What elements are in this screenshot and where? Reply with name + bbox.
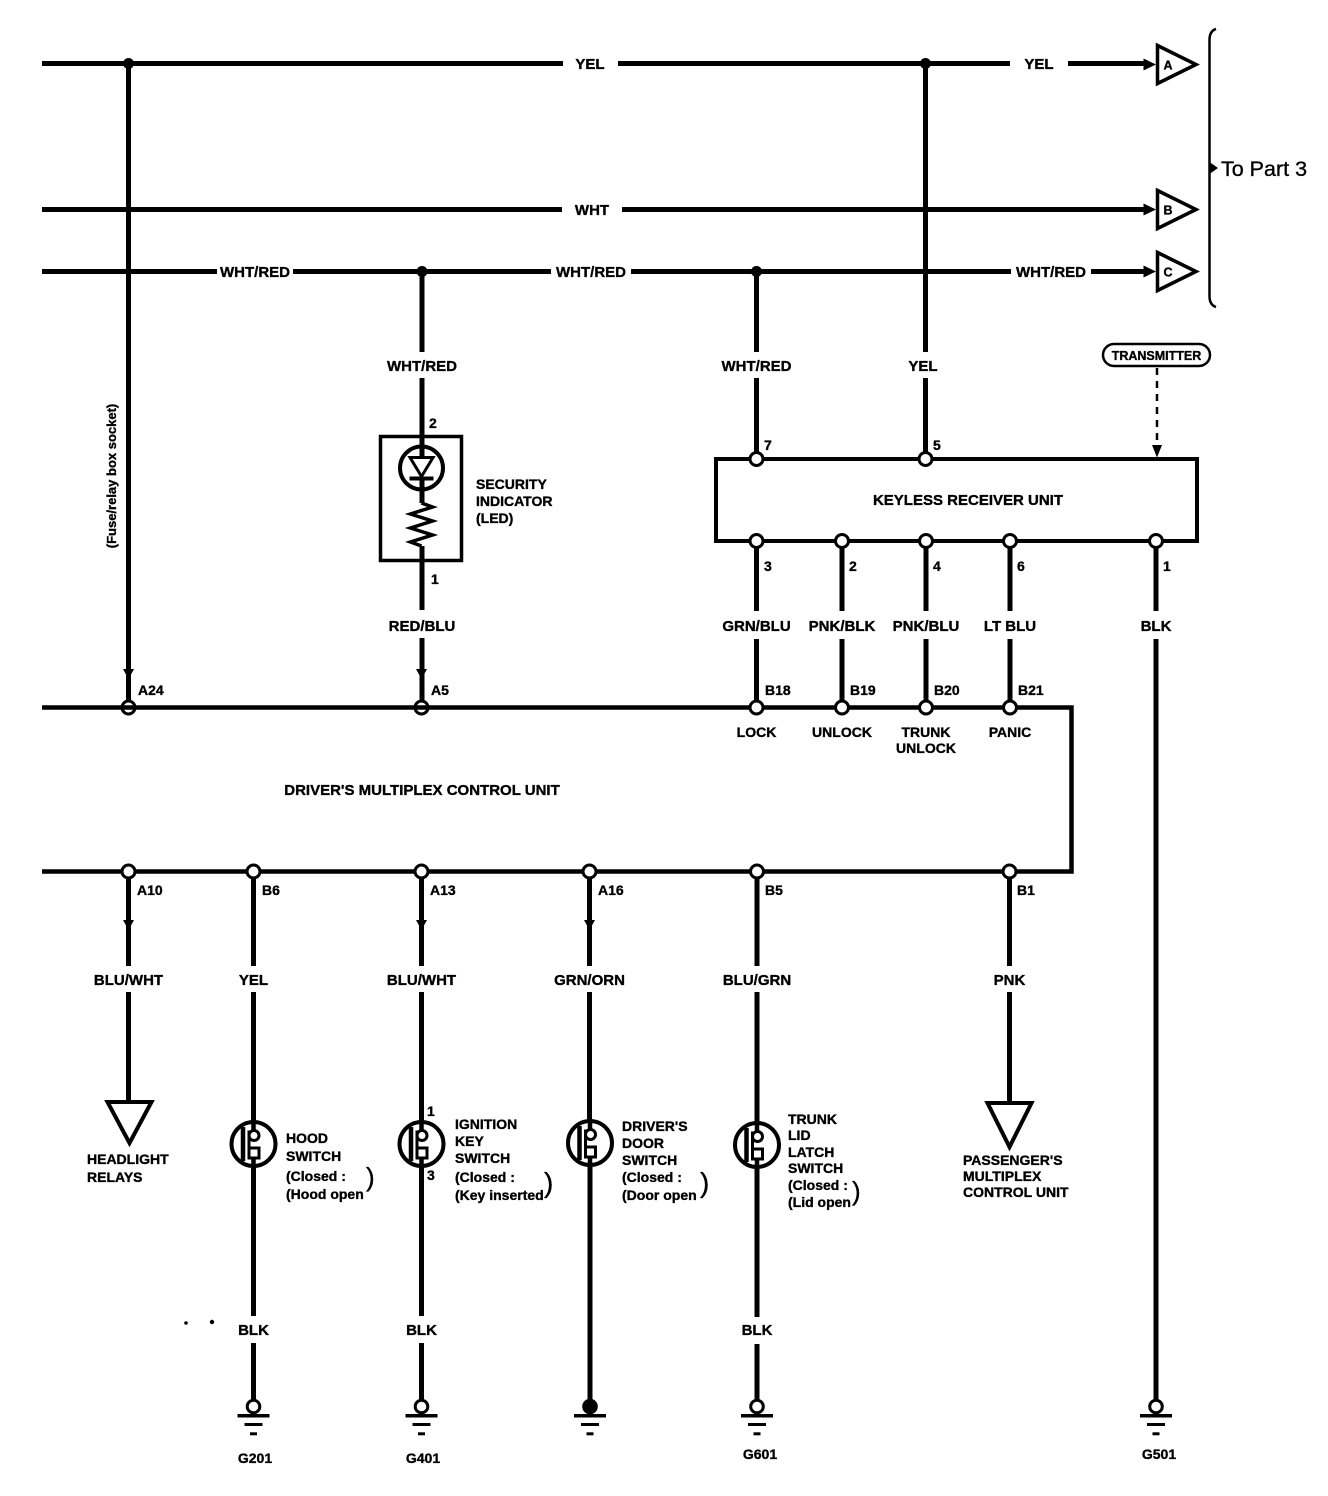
svg-text:B: B — [1163, 204, 1172, 218]
svg-text:BLK: BLK — [742, 1322, 773, 1339]
svg-text:PANIC: PANIC — [989, 724, 1032, 740]
svg-text:A10: A10 — [137, 882, 163, 898]
svg-text:3: 3 — [427, 1167, 435, 1183]
pin A24 — [122, 682, 164, 714]
label SECURITY INDICATOR (LED) — [476, 476, 552, 526]
svg-text:YEL: YEL — [908, 358, 937, 375]
label TRUNK UNLOCK — [896, 724, 956, 756]
svg-text:TRUNK: TRUNK — [902, 724, 951, 740]
ground (driver's door switch) — [574, 1400, 606, 1434]
dashed wire from transmitter — [1152, 368, 1162, 458]
svg-text:YEL: YEL — [1024, 56, 1053, 73]
svg-text:WHT/RED: WHT/RED — [722, 358, 792, 375]
pin 2 — [836, 535, 858, 575]
wire WHT/RED to security indicator — [420, 272, 425, 702]
pin A5 — [415, 682, 449, 714]
pin 5 — [919, 437, 941, 466]
pin number 2 — [429, 415, 437, 431]
svg-text:B19: B19 — [850, 682, 876, 698]
label PASSENGER'S MULTIPLEX CONTROL UNIT — [963, 1152, 1069, 1200]
svg-text:WHT/RED: WHT/RED — [220, 264, 290, 281]
pin 7 — [750, 437, 772, 466]
svg-text:G401: G401 — [406, 1450, 440, 1466]
wire PNK/BLK keyless 2 to B19 — [840, 547, 845, 701]
svg-text:B20: B20 — [934, 682, 960, 698]
svg-text:6: 6 — [1017, 558, 1025, 574]
svg-text:(Closed :: (Closed : — [286, 1168, 346, 1184]
label BLK — [1141, 618, 1172, 635]
label BLU/WHT — [94, 972, 163, 989]
pin number 1 — [431, 571, 439, 587]
pin A13 — [415, 865, 456, 898]
svg-text:1: 1 — [1163, 558, 1171, 574]
wire LT BLU keyless 6 to B21 — [1008, 547, 1013, 701]
junction LED wire / WHT-RED bus — [417, 266, 428, 277]
svg-text:A5: A5 — [431, 682, 449, 698]
svg-text:A13: A13 — [430, 882, 456, 898]
svg-text:(Lid open: (Lid open — [788, 1194, 851, 1210]
svg-text:CONTROL UNIT: CONTROL UNIT — [963, 1184, 1069, 1200]
pin 3 — [750, 535, 772, 575]
svg-text:PNK: PNK — [994, 972, 1026, 989]
svg-text:TRUNK: TRUNK — [788, 1111, 837, 1127]
svg-text:5: 5 — [933, 437, 941, 453]
bracket To Part 3 — [1210, 29, 1219, 307]
pin B6 — [247, 865, 280, 898]
svg-text:SECURITY: SECURITY — [476, 476, 547, 492]
flow arrow on A5 wire — [416, 669, 427, 679]
svg-text:BLU/WHT: BLU/WHT — [387, 972, 456, 989]
svg-text:A24: A24 — [138, 682, 164, 698]
pin B1 — [1003, 865, 1035, 898]
label BLU/WHT — [387, 972, 456, 989]
wire YEL to keyless pin 5 — [923, 64, 928, 454]
svg-text:(Hood open: (Hood open — [286, 1186, 364, 1202]
flow arrow on door switch wire — [584, 920, 595, 930]
svg-text:DRIVER'S MULTIPLEX CONTROL UNI: DRIVER'S MULTIPLEX CONTROL UNIT — [284, 782, 560, 799]
svg-text:HEADLIGHT: HEADLIGHT — [87, 1151, 169, 1167]
junction fuse wire / YEL bus — [123, 58, 134, 69]
label WHT/RED — [387, 358, 457, 375]
svg-text:1: 1 — [431, 571, 439, 587]
ground G501 — [1140, 1400, 1176, 1462]
pin B19 — [836, 682, 876, 714]
label BLK — [406, 1322, 437, 1339]
pin B21 — [1004, 682, 1044, 714]
svg-text:G601: G601 — [743, 1446, 777, 1462]
pin 1 — [1150, 535, 1172, 575]
label PANIC — [989, 724, 1032, 740]
label IGNITION KEY SWITCH — [455, 1116, 553, 1203]
keyless receiver unit — [716, 459, 1197, 541]
svg-text:(Fuse/relay box socket): (Fuse/relay box socket) — [104, 404, 119, 549]
wire BLU/WHT to ignition key switch — [419, 878, 424, 1122]
security indicator box — [381, 437, 462, 561]
svg-text:WHT/RED: WHT/RED — [387, 358, 457, 375]
svg-text:3: 3 — [764, 558, 772, 574]
svg-text:A16: A16 — [598, 882, 624, 898]
wire YEL bus to part 3 — [42, 61, 1145, 66]
svg-text:2: 2 — [849, 558, 857, 574]
label LOCK — [737, 724, 777, 740]
ground G201 — [238, 1400, 273, 1466]
svg-text:C: C — [1163, 266, 1172, 280]
LED (security indicator) — [400, 447, 443, 490]
svg-text:(Key inserted: (Key inserted — [455, 1187, 544, 1203]
label To Part 3 — [1221, 157, 1307, 181]
svg-text:(Closed :: (Closed : — [788, 1177, 848, 1193]
junction keyless pin5 wire / YEL bus — [920, 58, 931, 69]
wire BLK keyless 1 to G501 — [1154, 547, 1159, 1400]
svg-text:SWITCH: SWITCH — [286, 1148, 341, 1164]
svg-text:WHT/RED: WHT/RED — [1016, 264, 1086, 281]
wire door switch to ground — [588, 1165, 593, 1401]
label LT BLU — [984, 618, 1036, 635]
svg-text:): ) — [700, 1167, 709, 1198]
label PNK/BLK — [809, 618, 876, 635]
label PNK — [994, 972, 1026, 989]
svg-text:KEY: KEY — [455, 1133, 484, 1149]
svg-text:HOOD: HOOD — [286, 1130, 328, 1146]
flow arrow on A24 wire — [123, 669, 134, 679]
svg-text:G501: G501 — [1142, 1446, 1176, 1462]
pin B20 — [920, 682, 960, 714]
svg-text:PNK/BLK: PNK/BLK — [809, 618, 876, 635]
svg-text:IGNITION: IGNITION — [455, 1116, 517, 1132]
flow arrow on ignition wire — [416, 920, 427, 930]
svg-text:BLK: BLK — [238, 1322, 269, 1339]
svg-text:DOOR: DOOR — [622, 1135, 664, 1151]
connector arrow C — [1144, 253, 1197, 291]
passenger's multiplex arrow — [988, 1103, 1032, 1147]
svg-text:LATCH: LATCH — [788, 1144, 834, 1160]
wire GRN/ORN to driver's door switch — [587, 878, 592, 1121]
svg-text:RELAYS: RELAYS — [87, 1169, 143, 1185]
svg-text:LT BLU: LT BLU — [984, 618, 1036, 635]
svg-text:A: A — [1163, 59, 1172, 73]
svg-text:B18: B18 — [765, 682, 791, 698]
transmitter — [1103, 344, 1210, 366]
ground G401 — [406, 1400, 441, 1466]
wire BLK hood switch to G201 — [251, 1166, 256, 1401]
label WHT/RED — [556, 264, 626, 281]
wire PNK/BLU keyless 4 to B20 — [924, 547, 929, 701]
svg-text:TRANSMITTER: TRANSMITTER — [1112, 349, 1202, 363]
svg-text:SWITCH: SWITCH — [455, 1150, 510, 1166]
svg-text:BLU/WHT: BLU/WHT — [94, 972, 163, 989]
label BLK — [742, 1322, 773, 1339]
wire BLU/WHT to headlight relays — [126, 878, 131, 1102]
label PNK/BLU — [893, 618, 960, 635]
label YEL — [575, 56, 604, 73]
label YEL — [239, 972, 268, 989]
svg-text:G201: G201 — [238, 1450, 272, 1466]
pin number 3 — [427, 1167, 435, 1183]
headlight relays arrow — [108, 1102, 152, 1143]
wire GRN/BLU keyless 3 to B18 — [754, 547, 759, 701]
wire WHT/RED to keyless pin 7 — [754, 272, 759, 454]
svg-text:PASSENGER'S: PASSENGER'S — [963, 1152, 1063, 1168]
svg-text:): ) — [366, 1162, 375, 1192]
svg-text:SWITCH: SWITCH — [622, 1152, 677, 1168]
label YEL — [908, 358, 937, 375]
wire BLU/GRN to trunk lid latch switch — [755, 878, 760, 1123]
pin 6 — [1004, 535, 1026, 575]
svg-text:YEL: YEL — [575, 56, 604, 73]
pin A10 — [122, 865, 163, 898]
label WHT/RED — [1016, 264, 1086, 281]
svg-text:PNK/BLU: PNK/BLU — [893, 618, 960, 635]
label HEADLIGHT RELAYS — [87, 1151, 169, 1185]
resistor in security indicator — [411, 503, 433, 546]
pin number 1 — [427, 1103, 435, 1119]
wire YEL to hood switch — [251, 878, 256, 1122]
wire PNK to passenger's multiplex control unit — [1007, 878, 1012, 1103]
wire BLK ignition switch to G401 — [419, 1166, 424, 1401]
label RED/BLU — [389, 618, 456, 635]
svg-text:INDICATOR: INDICATOR — [476, 493, 552, 509]
wire WHT/RED bus to part 3 — [42, 269, 1145, 274]
svg-text:UNLOCK: UNLOCK — [896, 740, 956, 756]
connector arrow A — [1144, 46, 1197, 84]
svg-text:YEL: YEL — [239, 972, 268, 989]
svg-text:RED/BLU: RED/BLU — [389, 618, 456, 635]
label UNLOCK — [812, 724, 872, 740]
wire WHT bus to part 3 — [42, 207, 1145, 212]
label HOOD SWITCH — [286, 1130, 375, 1202]
label TRUNK LID LATCH SWITCH — [788, 1111, 861, 1210]
svg-text:BLK: BLK — [406, 1322, 437, 1339]
svg-text:GRN/BLU: GRN/BLU — [722, 618, 790, 635]
svg-text:BLU/GRN: BLU/GRN — [723, 972, 791, 989]
svg-text:B6: B6 — [262, 882, 280, 898]
svg-text:WHT: WHT — [575, 202, 609, 219]
svg-text:): ) — [852, 1176, 861, 1206]
ground G601 — [741, 1400, 777, 1462]
svg-text:UNLOCK: UNLOCK — [812, 724, 872, 740]
label GRN/ORN — [554, 972, 625, 989]
label BLK — [238, 1322, 269, 1339]
svg-text:(Closed :: (Closed : — [622, 1169, 682, 1185]
wire from fuse/relay box socket to A24 — [126, 64, 131, 702]
svg-text:(LED): (LED) — [476, 510, 513, 526]
pin B18 — [750, 682, 791, 714]
svg-text:MULTIPLEX: MULTIPLEX — [963, 1168, 1042, 1184]
svg-text:SWITCH: SWITCH — [788, 1160, 843, 1176]
svg-text:4: 4 — [933, 558, 941, 574]
svg-text:To Part 3: To Part 3 — [1221, 157, 1307, 181]
svg-text:B1: B1 — [1017, 882, 1035, 898]
svg-text:7: 7 — [764, 437, 772, 453]
pin A16 — [583, 865, 624, 898]
trunk lid latch switch — [735, 1121, 779, 1169]
label WHT/RED — [722, 358, 792, 375]
svg-text:(Door open: (Door open — [622, 1187, 697, 1203]
speck — [184, 1321, 188, 1325]
junction keyless pin7 wire / WHT-RED bus — [751, 266, 762, 277]
label BLU/GRN — [723, 972, 791, 989]
driver's door switch — [568, 1119, 612, 1167]
svg-text:BLK: BLK — [1141, 618, 1172, 635]
svg-text:LID: LID — [788, 1127, 811, 1143]
connector arrow B — [1144, 191, 1197, 229]
flow arrow on BLU/WHT wire — [123, 920, 134, 930]
speck — [210, 1320, 214, 1324]
svg-text:WHT/RED: WHT/RED — [556, 264, 626, 281]
svg-text:B5: B5 — [765, 882, 783, 898]
svg-text:1: 1 — [427, 1103, 435, 1119]
svg-text:DRIVER'S: DRIVER'S — [622, 1118, 688, 1134]
label (Fuse/relay box socket) — [104, 404, 119, 549]
driver's multiplex control unit — [42, 708, 1072, 872]
label DRIVER'S DOOR SWITCH — [622, 1118, 709, 1203]
svg-text:(Closed :: (Closed : — [455, 1169, 515, 1185]
svg-text:): ) — [544, 1167, 553, 1198]
svg-text:B21: B21 — [1018, 682, 1044, 698]
ignition key switch — [400, 1120, 444, 1168]
hood switch — [232, 1120, 276, 1168]
svg-text:LOCK: LOCK — [737, 724, 777, 740]
label WHT/RED — [220, 264, 290, 281]
svg-text:KEYLESS RECEIVER UNIT: KEYLESS RECEIVER UNIT — [873, 492, 1063, 509]
pin B5 — [751, 865, 784, 898]
svg-text:2: 2 — [429, 415, 437, 431]
pin 4 — [920, 535, 942, 575]
svg-text:GRN/ORN: GRN/ORN — [554, 972, 625, 989]
label YEL — [1024, 56, 1053, 73]
label GRN/BLU — [722, 618, 790, 635]
wire BLK trunk switch to G601 — [755, 1167, 760, 1401]
label WHT — [575, 202, 609, 219]
